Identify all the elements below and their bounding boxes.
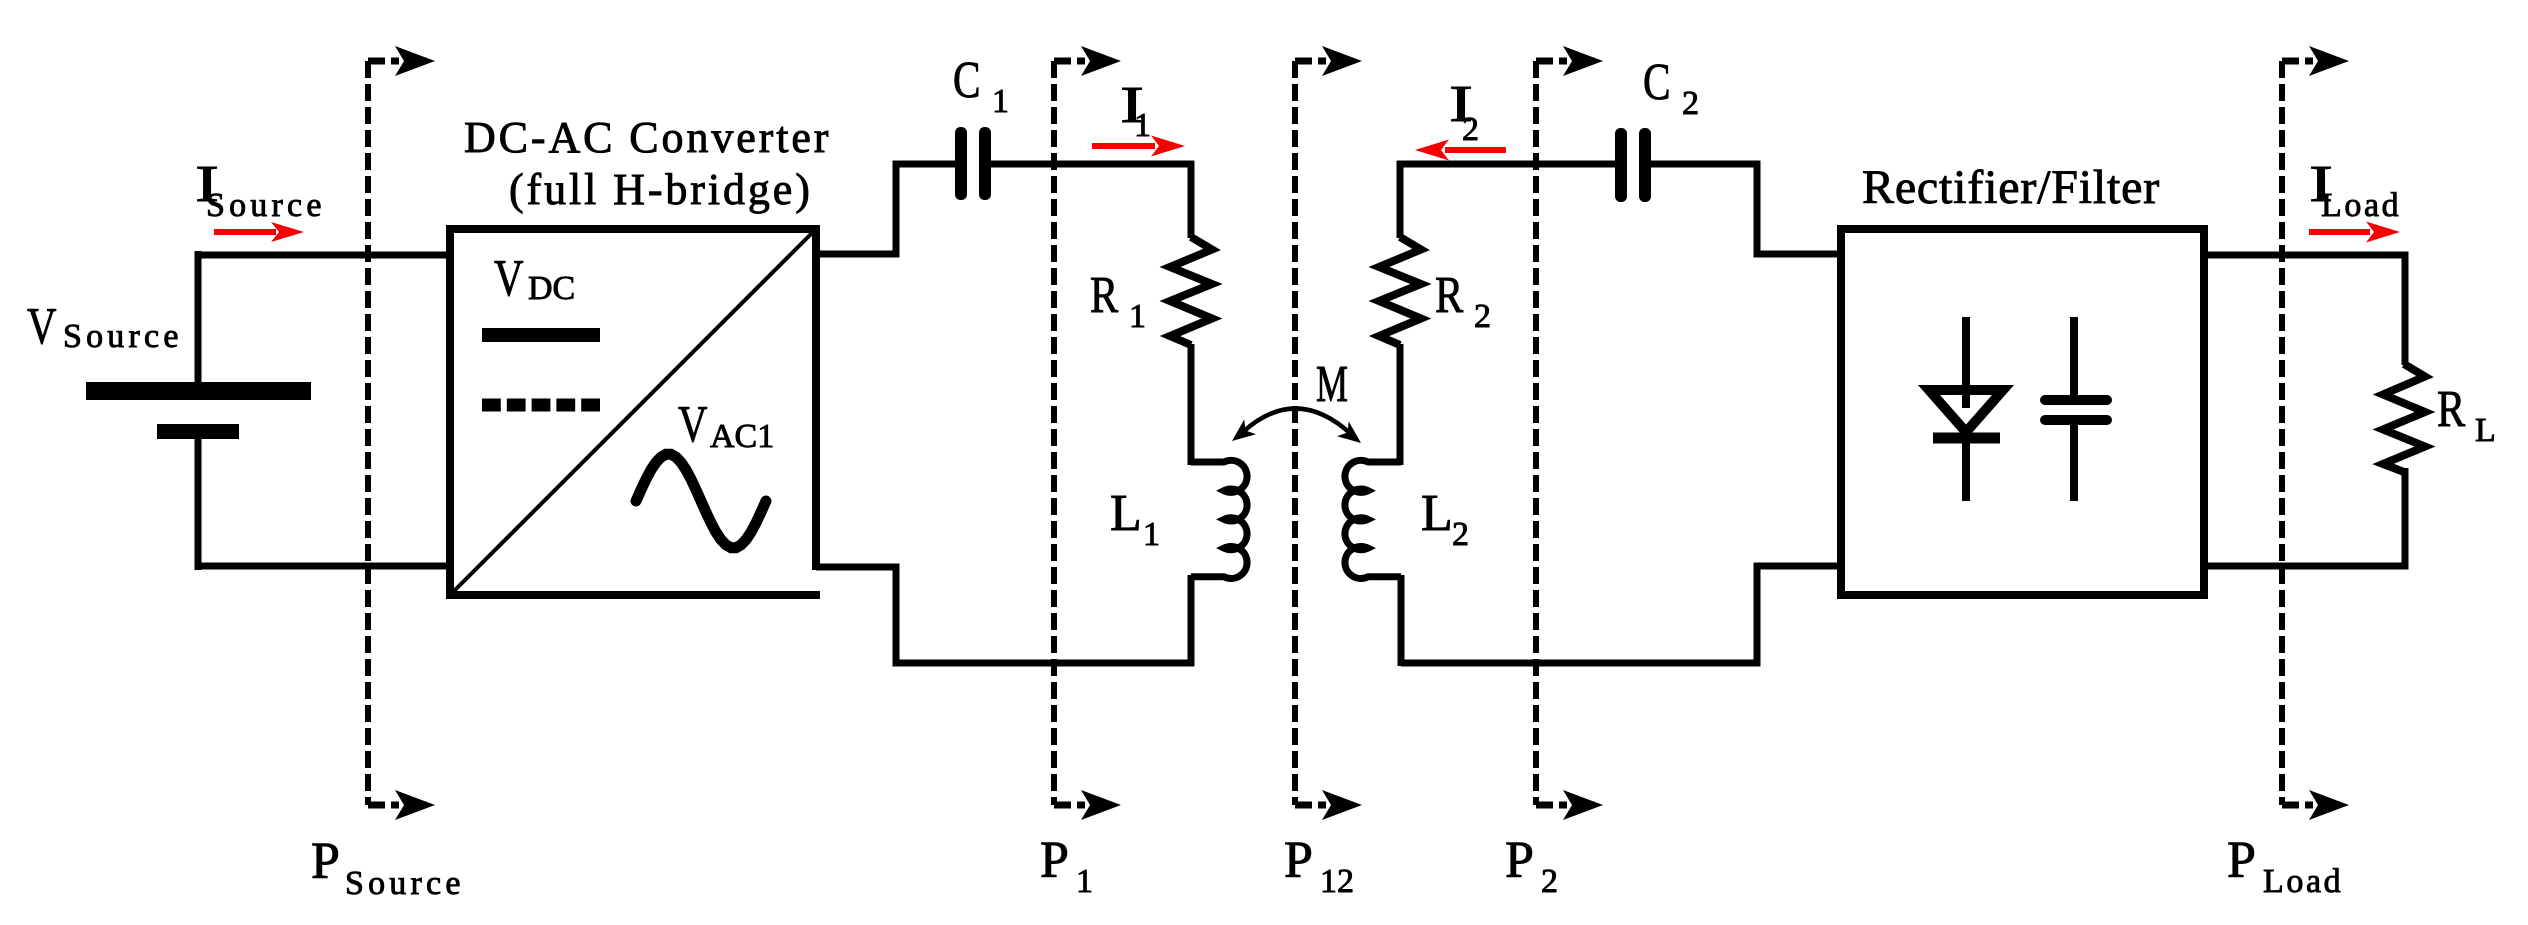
capacitor C2 [1615, 128, 1651, 202]
measurement plane P12 dashed line [1295, 46, 1362, 820]
svg-text:L: L [1110, 485, 1142, 542]
svg-text:R: R [2437, 381, 2465, 438]
battery long plate [86, 382, 311, 400]
label P12 [1284, 832, 1354, 900]
svg-text:L: L [1421, 485, 1453, 542]
wire source top rail [195, 252, 446, 259]
svg-text:C: C [953, 52, 981, 109]
wire battery bottom vertical [195, 439, 202, 570]
svg-text:P: P [311, 833, 340, 890]
svg-text:12: 12 [1320, 863, 1354, 900]
resistor RL [2383, 364, 2425, 472]
label PLoad [2227, 832, 2343, 900]
current arrow I1 (red) [1092, 136, 1185, 157]
svg-text:R: R [1090, 267, 1118, 324]
svg-text:C: C [1643, 54, 1671, 111]
inductor L2 [1345, 460, 1401, 666]
wire C2 to rectifier top [1651, 164, 1838, 254]
svg-text:L: L [2475, 412, 2496, 449]
wire secondary top rail [1397, 161, 1615, 168]
svg-text:2: 2 [1541, 863, 1558, 900]
current arrow I2 (red, pointing left) [1415, 140, 1506, 161]
label RL [2437, 381, 2496, 449]
diode D1 [1929, 317, 2003, 501]
svg-text:Source: Source [345, 865, 465, 902]
svg-text:1: 1 [992, 83, 1009, 120]
label L2 [1421, 485, 1469, 553]
rectifier box U2 [1841, 229, 2204, 595]
sine wave symbol [636, 454, 766, 547]
wire converter output bottom [816, 567, 1194, 663]
svg-text:1: 1 [1143, 516, 1160, 553]
svg-text:1: 1 [1129, 298, 1146, 335]
svg-text:R: R [1435, 267, 1463, 324]
svg-text:1: 1 [1134, 107, 1151, 144]
label ISource [195, 156, 326, 224]
VDC dashed bar [482, 399, 600, 412]
svg-text:Source: Source [63, 318, 183, 355]
svg-text:P: P [1505, 832, 1534, 889]
svg-text:Rectifier/Filter: Rectifier/Filter [1862, 161, 2160, 214]
capacitor C1 [955, 127, 991, 200]
DC-AC converter box U1 [450, 229, 820, 595]
wire primary top rail [991, 161, 1194, 168]
svg-text:V: V [678, 396, 708, 453]
wire converter output top [820, 164, 956, 254]
svg-text:V: V [494, 250, 524, 307]
svg-text:P: P [1040, 832, 1069, 889]
battery short plate [157, 424, 239, 439]
inductor L1 [1191, 460, 1247, 666]
measurement plane P1 dashed line [1054, 46, 1121, 820]
svg-text:P: P [1284, 832, 1313, 889]
svg-text:DC: DC [528, 270, 575, 307]
converter diagonal [452, 231, 814, 593]
label VAC1 [678, 396, 774, 455]
svg-text:(full H-bridge): (full H-bridge) [509, 165, 813, 214]
svg-text:2: 2 [1462, 111, 1479, 148]
resistor R2 [1379, 161, 1421, 465]
svg-text:V: V [27, 298, 57, 355]
wire rectifier bottom to secondary loop [1401, 566, 1841, 663]
battery source V1 [86, 251, 311, 570]
svg-text:Load: Load [2321, 187, 2401, 224]
svg-text:P: P [2227, 832, 2256, 889]
label P1 [1040, 832, 1093, 900]
measurement plane P2 dashed line [1536, 46, 1603, 820]
label I2 [1449, 76, 1479, 148]
label VSource [27, 298, 183, 355]
measurement plane PSource dashed line [368, 46, 435, 820]
wire battery top vertical [195, 251, 202, 382]
svg-text:2: 2 [1452, 516, 1469, 553]
label R1 [1090, 267, 1146, 335]
label ILoad [2309, 156, 2401, 224]
mutual coupling arrow M [1232, 408, 1361, 443]
resistor R1 [1170, 161, 1212, 465]
label VDC [494, 250, 575, 307]
label PSource [311, 833, 465, 902]
label R2 [1435, 267, 1491, 335]
filter capacitor C3 [2045, 317, 2107, 501]
label I1 [1120, 77, 1151, 144]
svg-text:DC-AC Converter: DC-AC Converter [464, 113, 831, 162]
label P2 [1505, 832, 1558, 900]
label L1 [1110, 485, 1160, 553]
wire rectifier output bottom [2204, 468, 2405, 566]
label C2 [1643, 54, 1699, 122]
svg-text:1: 1 [1076, 863, 1093, 900]
svg-text:Source: Source [206, 187, 326, 224]
wire source bottom rail [195, 563, 446, 570]
current arrow ILoad (red) [2309, 222, 2400, 243]
current arrow ISource (red) [214, 222, 304, 242]
svg-text:M: M [1316, 356, 1348, 413]
svg-text:2: 2 [1474, 298, 1491, 335]
svg-text:Load: Load [2263, 863, 2343, 900]
svg-text:2: 2 [1682, 85, 1699, 122]
VDC solid bar [482, 328, 600, 342]
label C1 [953, 52, 1009, 120]
measurement plane PLoad dashed line [2282, 46, 2349, 820]
svg-text:AC1: AC1 [710, 418, 774, 455]
wire rectifier output top [2204, 255, 2405, 365]
